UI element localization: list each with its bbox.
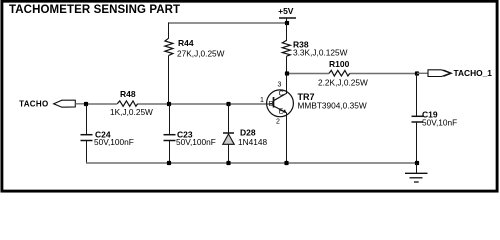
transistor TR7 [260,74,367,164]
capacitor C23 [164,104,216,163]
ground rail wire [86,162,417,164]
svg-text:50V,100nF: 50V,100nF [94,137,134,147]
svg-text:TACHOMETER SENSING PART: TACHOMETER SENSING PART [9,4,180,16]
svg-text:R48: R48 [120,89,136,99]
wire R100 rail [287,73,330,75]
wire main signal [86,103,117,105]
svg-text:3: 3 [278,82,282,89]
junction R44/C23 node [167,102,171,106]
svg-text:D28: D28 [240,127,256,137]
svg-text:C: C [279,90,284,97]
ground [405,163,428,182]
svg-text:1N4148: 1N4148 [238,137,267,147]
svg-text:TACHO_1: TACHO_1 [454,68,493,78]
svg-text:E: E [279,109,284,116]
svg-text:1: 1 [260,97,264,104]
connector TACHO_1 [417,68,492,78]
resistor R38 [282,23,347,74]
svg-text:TACHO: TACHO [19,99,48,108]
wire top rail from R44 to +5V [168,22,287,24]
svg-text:1K,J,0.25W: 1K,J,0.25W [110,107,153,117]
border frame [2,1,497,191]
svg-text:MMBT3904,0.35W: MMBT3904,0.35W [298,101,367,111]
junction C23/gnd [167,161,171,165]
junction node R38/R100/TR7 collector [285,71,289,75]
junction node R100/C19 [415,71,419,75]
junction +5V node [285,21,289,25]
junction TR7 emitter/gnd [284,161,288,165]
junction D28/gnd [226,161,230,165]
diode D28 [223,104,268,163]
svg-text:R44: R44 [178,38,194,48]
resistor R100 [318,59,368,88]
capacitor C24 [81,104,134,163]
svg-text:R100: R100 [329,59,350,69]
svg-text:3.3K,J,0.125W: 3.3K,J,0.125W [293,48,348,58]
svg-text:50V,100nF: 50V,100nF [176,137,216,147]
connector TACHO [19,99,86,108]
junction TACHO/C24 node [84,102,88,106]
junction D28 node [226,102,230,106]
svg-text:2: 2 [276,118,280,125]
capacitor C19 [412,74,458,164]
svg-text:27K,J,0.25W: 27K,J,0.25W [177,49,225,59]
svg-text:2.2K,J,0.25W: 2.2K,J,0.25W [318,78,368,88]
svg-text:50V,10nF: 50V,10nF [422,118,457,128]
svg-text:B: B [269,101,274,108]
power +5V [278,6,296,24]
junction C19/gnd [415,161,419,165]
resistor R48 [110,89,153,117]
resistor R44 [165,23,225,105]
svg-text:+5V: +5V [278,6,294,16]
